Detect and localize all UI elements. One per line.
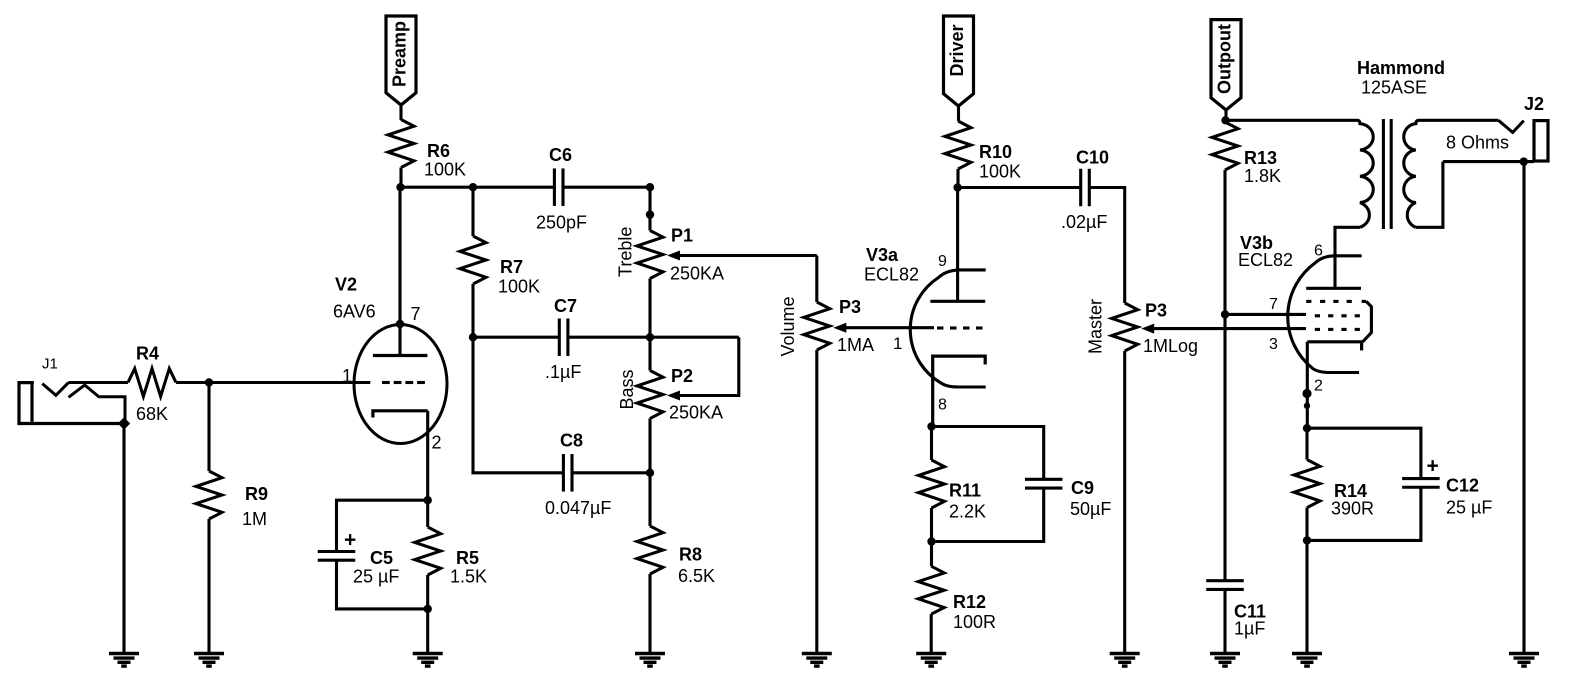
node R14 bottom — [1303, 536, 1311, 544]
wire C12 to bottom node — [1307, 486, 1421, 540]
svg-text:J2: J2 — [1524, 94, 1544, 114]
svg-text:100K: 100K — [424, 160, 466, 180]
svg-text:C10: C10 — [1076, 148, 1109, 168]
wire node to V2 grid — [209, 381, 370, 384]
capacitor C6 — [553, 168, 556, 206]
wire R9 to ground — [207, 519, 210, 654]
wire to R11 — [930, 427, 933, 461]
capacitor C12 branch — [1307, 428, 1421, 479]
ground at J2 — [1509, 652, 1539, 655]
wire C5 to bottom node — [337, 559, 428, 609]
svg-text:1: 1 — [893, 334, 902, 353]
svg-text:7: 7 — [411, 304, 421, 324]
wire R7 to C7 node — [471, 284, 474, 337]
svg-text:6.5K: 6.5K — [678, 566, 715, 586]
svg-text:25 µF: 25 µF — [353, 567, 399, 587]
wire flag to R6 — [399, 105, 402, 120]
pot P2 Bass — [637, 371, 663, 419]
wire R14 to ground — [1305, 540, 1308, 653]
svg-text:6AV6: 6AV6 — [333, 302, 376, 322]
V3b suppressor bracket — [1363, 301, 1372, 341]
flag Driver — [944, 16, 974, 106]
svg-text:C7: C7 — [554, 296, 577, 316]
node R14 top — [1303, 424, 1311, 432]
secondary top lead — [1419, 119, 1498, 122]
wire C11 to ground — [1223, 588, 1226, 653]
node above P1 — [646, 210, 654, 218]
resistor R6 — [388, 120, 414, 168]
wire J1 sleeve to ground — [122, 424, 125, 654]
capacitor C7 — [473, 336, 561, 339]
V2 pin 2 wire — [426, 411, 429, 500]
svg-text:68K: 68K — [136, 404, 168, 424]
wire P1 to P2 — [648, 279, 651, 338]
V3a cathode — [933, 356, 986, 426]
wire node down to C11 — [1223, 314, 1226, 581]
connector J2 output jack — [1498, 120, 1523, 132]
resistor R13 — [1223, 120, 1226, 122]
Master wiper arrow — [1141, 324, 1154, 334]
wire to C6 — [473, 186, 556, 189]
svg-text:25 µF: 25 µF — [1446, 498, 1492, 518]
svg-text:1MA: 1MA — [837, 335, 874, 355]
wire Volume to ground — [815, 350, 818, 654]
node grid junction — [205, 378, 213, 386]
node R5 bottom — [424, 605, 432, 613]
node V2 plate row — [396, 183, 404, 191]
wire C7 to node — [567, 336, 650, 339]
node C8 right — [646, 469, 654, 477]
wire R8 to ground — [648, 574, 651, 654]
resistor R11 — [919, 460, 945, 508]
capacitor C5 branch wire — [337, 500, 428, 552]
node Outpout — [1221, 116, 1229, 124]
resistor R10 — [945, 121, 971, 169]
svg-text:7: 7 — [1269, 296, 1278, 313]
wire node to R7 node — [400, 186, 473, 189]
flag Outpout — [1211, 20, 1241, 110]
svg-text:R7: R7 — [500, 257, 523, 277]
svg-text:R11: R11 — [949, 481, 981, 501]
svg-text:C8: C8 — [560, 431, 583, 451]
V2 grid dashes — [382, 381, 390, 384]
ground at R9 — [194, 652, 224, 655]
wire C8 node to R8 — [648, 473, 651, 526]
svg-text:R9: R9 — [245, 484, 268, 504]
svg-text:Master: Master — [1086, 299, 1106, 354]
svg-text:Preamp: Preamp — [390, 21, 410, 87]
svg-text:.02µF: .02µF — [1061, 212, 1107, 232]
wire down to C8 row — [473, 337, 565, 473]
svg-text:2: 2 — [1314, 378, 1323, 395]
tube V3a envelope — [910, 270, 985, 387]
svg-text:9: 9 — [938, 253, 947, 270]
svg-text:R5: R5 — [456, 548, 479, 568]
wire R14 to node — [1305, 508, 1308, 541]
ground at Master — [1110, 652, 1140, 655]
resistor R5 — [415, 527, 441, 575]
ground at R8 — [635, 652, 665, 655]
wire node to R12 — [930, 542, 933, 567]
Volume wiper arrow — [833, 323, 846, 333]
svg-text:50µF: 50µF — [1070, 499, 1111, 519]
svg-text:Hammond: Hammond — [1357, 58, 1445, 78]
wire J2 sleeve — [1443, 160, 1534, 163]
ground at R14 — [1292, 652, 1322, 655]
wire pin 7 to V3b — [1225, 313, 1306, 316]
svg-text:100K: 100K — [498, 277, 540, 297]
ground at R12 — [916, 652, 946, 655]
wire flag to R10 — [957, 106, 960, 121]
P1 wiper arrow — [667, 251, 680, 261]
svg-text:2: 2 — [432, 433, 442, 453]
resistor R7 — [471, 187, 474, 236]
transformer primary winding — [1357, 120, 1373, 227]
node J2 sleeve — [1520, 157, 1528, 165]
svg-text:1: 1 — [342, 366, 352, 386]
svg-text:125ASE: 125ASE — [1361, 78, 1427, 98]
small dot — [1304, 403, 1310, 409]
wire J2 to ground — [1522, 162, 1525, 654]
svg-text:.1µF: .1µF — [545, 362, 581, 382]
svg-text:C12: C12 — [1446, 476, 1479, 496]
svg-text:ECL82: ECL82 — [864, 265, 919, 285]
wire R10 to node — [956, 169, 959, 188]
svg-text:1MLog: 1MLog — [1143, 336, 1198, 356]
svg-text:100K: 100K — [979, 162, 1021, 182]
wire J1 tip to R4 — [69, 381, 129, 384]
node R11 bottom — [927, 537, 935, 545]
svg-text:R4: R4 — [136, 344, 159, 364]
svg-text:3: 3 — [1269, 336, 1278, 353]
svg-text:1.8K: 1.8K — [1244, 166, 1281, 186]
node pin 7 junction — [1221, 310, 1229, 318]
svg-text:2.2K: 2.2K — [949, 502, 986, 522]
pot P3 Master — [1112, 303, 1138, 351]
resistor R12 — [918, 566, 944, 614]
capacitor C9 — [1025, 478, 1063, 481]
svg-text:1µF: 1µF — [1234, 619, 1265, 639]
capacitor C5 — [318, 550, 356, 553]
wire R6 to node — [399, 168, 402, 188]
wire P1 top — [648, 187, 651, 230]
pot P1 Treble — [637, 231, 663, 279]
wire plate node down — [398, 187, 401, 324]
connector J1 input jack — [19, 383, 123, 424]
ground at Volume — [802, 652, 832, 655]
V3b pin 2 wire — [1306, 342, 1309, 428]
wire C10 to Master — [1088, 188, 1125, 304]
node V3a cathode — [927, 422, 935, 430]
wire node to R9 — [207, 383, 210, 472]
svg-text:P3: P3 — [1145, 301, 1167, 321]
svg-text:250KA: 250KA — [670, 264, 724, 284]
svg-text:8: 8 — [938, 397, 947, 414]
svg-text:+: + — [1427, 455, 1439, 478]
wire node to transformer — [1226, 119, 1358, 122]
wire P2 to C8 node — [648, 419, 651, 473]
V3b pin 2 dot — [1302, 389, 1311, 398]
P2 wiper arrow — [667, 391, 680, 401]
svg-text:250KA: 250KA — [669, 403, 723, 423]
V2 cathode — [373, 411, 428, 418]
svg-text:Outpout: Outpout — [1215, 24, 1235, 94]
svg-text:250pF: 250pF — [536, 213, 587, 233]
flag Preamp — [386, 16, 416, 105]
wire flag to node — [1224, 110, 1227, 120]
node R10 bottom — [953, 183, 961, 191]
node V2 cathode junction — [424, 496, 432, 504]
node R7 top — [469, 183, 477, 191]
svg-text:Treble: Treble — [616, 227, 636, 277]
svg-text:C6: C6 — [549, 145, 572, 165]
node J1 sleeve junction — [118, 417, 130, 429]
svg-text:R6: R6 — [427, 141, 450, 161]
wire R4 to node — [176, 381, 209, 384]
ground at C11 — [1210, 652, 1240, 655]
wire R12 to ground — [930, 614, 933, 653]
V3a grid dashes — [937, 326, 944, 329]
transformer secondary winding — [1404, 120, 1419, 227]
resistor R14 — [1294, 460, 1320, 508]
capacitor C10 — [1079, 169, 1082, 207]
V3b cathode — [1307, 342, 1361, 351]
wire to R14 — [1305, 428, 1308, 459]
svg-text:P1: P1 — [671, 226, 693, 246]
svg-text:Driver: Driver — [947, 24, 967, 76]
svg-text:+: + — [344, 529, 356, 552]
svg-text:1M: 1M — [242, 509, 267, 529]
svg-text:100R: 100R — [953, 612, 996, 632]
transformer core — [1382, 119, 1385, 229]
wire node to C10 — [958, 186, 1082, 189]
svg-text:C5: C5 — [370, 548, 393, 568]
wire to R5 — [426, 500, 429, 527]
wire C6 to P1 node — [562, 186, 650, 189]
V2 pin 7 node — [396, 320, 404, 328]
svg-text:Bass: Bass — [617, 369, 637, 409]
V3a plate — [956, 188, 959, 302]
svg-text:R12: R12 — [953, 592, 986, 612]
svg-text:C9: C9 — [1071, 478, 1094, 498]
node P1 top — [646, 183, 654, 191]
ground at R5 — [413, 652, 443, 655]
capacitor C12 — [1402, 477, 1440, 480]
resistor R4 — [128, 369, 176, 397]
wire C7 node to P2 loop — [650, 336, 739, 339]
wire Master to ground — [1123, 351, 1126, 654]
tube V3b envelope — [1288, 256, 1362, 373]
resistor R8 — [637, 526, 663, 574]
resistor R9 — [196, 471, 222, 519]
svg-text:8 Ohms: 8 Ohms — [1446, 133, 1509, 153]
wire R11 to node — [930, 508, 933, 542]
svg-text:V2: V2 — [335, 275, 357, 295]
svg-text:1.5K: 1.5K — [450, 567, 487, 587]
V3b plate — [1333, 244, 1336, 288]
node C7 left — [469, 333, 477, 341]
primary bottom lead — [1335, 227, 1360, 245]
capacitor C9 branch — [932, 427, 1044, 481]
wire C8 to node — [571, 471, 650, 474]
secondary bottom lead — [1416, 162, 1443, 228]
svg-text:0.047µF: 0.047µF — [545, 498, 611, 518]
wire R13 to pin7 node — [1223, 170, 1226, 314]
V3b grid g3 dashes — [1306, 300, 1311, 303]
wire P1 wiper down to Volume — [815, 256, 818, 303]
wire to ground R5 — [426, 609, 429, 654]
svg-text:R10: R10 — [979, 142, 1012, 162]
svg-text:R8: R8 — [679, 545, 702, 565]
capacitor C8 — [562, 454, 565, 492]
V3b grid g2 dashes — [1315, 314, 1320, 317]
ground at J1 — [109, 652, 139, 655]
svg-text:P3: P3 — [839, 297, 861, 317]
V2 plate — [398, 324, 401, 356]
capacitor C11 — [1206, 579, 1244, 582]
wire R5 to bottom node — [426, 575, 429, 609]
svg-text:R13: R13 — [1244, 148, 1277, 168]
svg-text:ECL82: ECL82 — [1238, 250, 1293, 270]
pot P3 Volume — [804, 302, 830, 350]
svg-text:6: 6 — [1314, 243, 1323, 260]
wire C9 to bottom node — [932, 487, 1044, 542]
svg-text:J1: J1 — [42, 356, 58, 373]
node C7 right — [646, 333, 654, 341]
tube V2 6AV6 envelope — [354, 325, 447, 444]
svg-text:Volume: Volume — [778, 296, 798, 356]
svg-text:390R: 390R — [1331, 499, 1374, 519]
svg-text:P2: P2 — [671, 366, 693, 386]
svg-text:V3a: V3a — [866, 245, 899, 265]
V3b grid g1 dashes — [1315, 328, 1320, 331]
